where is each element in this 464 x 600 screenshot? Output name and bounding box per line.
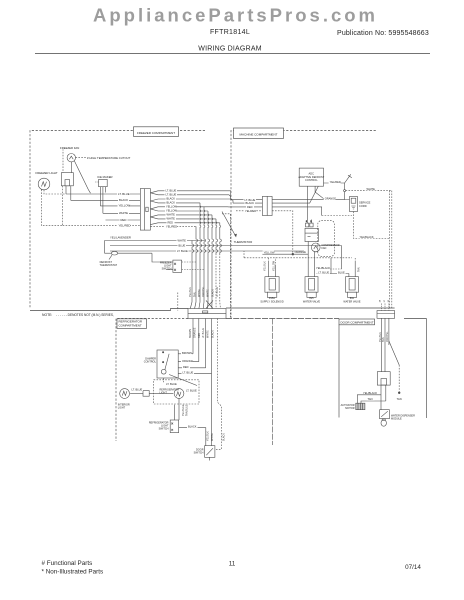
wire label red (left): [120, 218, 128, 222]
wire orange damper to J2: [178, 361, 199, 363]
svg-text:YEL/BLACK: YEL/BLACK: [316, 266, 330, 270]
compressor motor M2: [311, 243, 320, 252]
svg-text:WHITE: WHITE: [207, 289, 210, 297]
svg-text:LIGHT: LIGHT: [118, 406, 126, 409]
solenoid valve L3: [315, 246, 359, 298]
svg-text:LT. BLUE: LT. BLUE: [186, 388, 197, 392]
wire lamp drops to switch: [174, 405, 176, 420]
wire label white (left): [118, 211, 129, 215]
svg-text:ORANGE: ORANGE: [182, 359, 194, 363]
svg-text:MACHINE COMPARTMENT: MACHINE COMPARTMENT: [240, 132, 278, 136]
svg-text:YEL/LAVENDER: YEL/LAVENDER: [110, 235, 131, 239]
svg-text:ORANGE: ORANGE: [325, 197, 337, 201]
dashed riser left of J2: [177, 293, 179, 311]
wire P2 black diagonal to ADC: [272, 186, 318, 203]
svg-text:BROWN: BROWN: [189, 329, 192, 338]
thermistor arrow: [222, 212, 236, 237]
wire orange node: [262, 253, 308, 255]
svg-text:WATER VALVE: WATER VALVE: [303, 300, 320, 303]
wire white y240.5: [105, 240, 206, 242]
svg-text:LT. BLUE: LT. BLUE: [118, 192, 130, 196]
svg-text:CONTROL: CONTROL: [305, 178, 318, 182]
rotated labels door switch wires: [206, 431, 225, 441]
svg-text:TAN: TAN: [194, 292, 197, 297]
wire label lt. blue (L3 dashed): [317, 271, 330, 275]
svg-text:ORN/YEL: ORN/YEL: [386, 331, 389, 342]
svg-text:WHITE: WHITE: [119, 211, 128, 215]
svg-text:LT. BLUE: LT. BLUE: [166, 382, 177, 386]
wire yel/red dashed fanout: [151, 225, 197, 227]
wire labels entering machine connector: [244, 198, 257, 213]
svg-text:CORD: CORD: [359, 204, 367, 208]
wire label yel/red (adc right): [329, 180, 341, 184]
wire label yel/black (motor): [362, 391, 377, 395]
svg-text:CONTROL: CONTROL: [144, 360, 157, 363]
svg-text:LT. BLUE: LT. BLUE: [318, 271, 329, 275]
svg-text:LT. BLUE: LT. BLUE: [245, 198, 256, 202]
wire red pair fanout: [151, 223, 220, 225]
lamp terminal block: [143, 391, 149, 397]
svg-text:MOTOR: MOTOR: [345, 407, 354, 410]
svg-text:YEL/BLACK: YEL/BLACK: [363, 391, 377, 395]
wire brown damper to J2: [178, 353, 193, 355]
wire label lt. blue (lamp): [131, 388, 144, 392]
wire tan branch: [389, 341, 399, 365]
wire white pair fanout: [151, 215, 213, 217]
svg-text:COMPARTMENT: COMPARTMENT: [119, 323, 142, 327]
svg-text:BLUE: BLUE: [338, 271, 345, 275]
svg-text:ORANGE: ORANGE: [194, 327, 197, 338]
dispenser control box U4: [377, 372, 390, 385]
freezer compartment boundary: [30, 127, 205, 311]
svg-text:LT. BLUE: LT. BLUE: [166, 188, 177, 192]
svg-text:YEL/RED: YEL/RED: [119, 223, 131, 227]
door feed dashed pair: [388, 191, 390, 308]
svg-text:ORANGE: ORANGE: [295, 250, 307, 254]
wire yellow y205.9: [100, 205, 140, 207]
door connector P3: [377, 304, 395, 319]
vertical drop wire v2: [195, 226, 198, 308]
vertical drop wire v8: [220, 223, 222, 254]
run capacitor / relay box U2: [305, 220, 318, 242]
rotated wire labels above J2: [189, 286, 219, 297]
svg-text:SUPPLY SOLENOID: SUPPLY SOLENOID: [260, 300, 283, 303]
wire label yel/black (service): [359, 235, 374, 239]
svg-text:YEL/RED: YEL/RED: [245, 209, 256, 213]
svg-text:BLACK: BLACK: [212, 330, 215, 338]
wire label blue y245.5: [178, 244, 187, 248]
wire label orange (cold control): [324, 197, 337, 201]
svg-text:RED: RED: [247, 205, 253, 209]
svg-text:TAN: TAN: [397, 397, 402, 401]
svg-text:YEL/BLK: YEL/BLK: [263, 261, 266, 271]
svg-text:YELLOW: YELLOW: [119, 204, 131, 208]
svg-text:WHITE: WHITE: [167, 217, 176, 221]
refrigerator lamp LT3: [174, 389, 184, 399]
svg-text:SWITCH: SWITCH: [159, 427, 169, 430]
svg-text:* Non-Illustrated Parts: * Non-Illustrated Parts: [42, 569, 104, 576]
svg-text:BROWN: BROWN: [182, 351, 192, 355]
wire label orange: [181, 359, 194, 363]
svg-text:YEL/BLACK: YEL/BLACK: [360, 235, 374, 239]
svg-text:WHITE: WHITE: [211, 433, 214, 441]
svg-text:LT. BLUE: LT. BLUE: [132, 388, 143, 392]
svg-text:YEL/RED: YEL/RED: [166, 225, 177, 229]
svg-text:Publication No: 5995548663: Publication No: 5995548663: [337, 30, 429, 37]
freezer fan motor M1: [63, 149, 76, 173]
wires P3 down: [381, 318, 383, 371]
wire label blue (L3): [337, 271, 346, 275]
svg-text:YELLOW: YELLOW: [264, 250, 275, 254]
svg-text:BLACK: BLACK: [246, 201, 255, 205]
wire label brown: [181, 351, 192, 355]
svg-text:YEL/RED: YEL/RED: [330, 180, 341, 184]
svg-text:NOTE:: NOTE:: [42, 313, 52, 317]
svg-text:BLUE: BLUE: [179, 244, 186, 248]
wire yel/black to motor: [357, 395, 381, 403]
svg-text:RED: RED: [198, 333, 201, 338]
svg-text:RED: RED: [168, 220, 174, 224]
activator motor M3: [356, 403, 365, 410]
door switch S4: [205, 446, 215, 461]
vertical drop wire v4: [203, 207, 205, 309]
svg-text:LT. BLUE: LT. BLUE: [216, 287, 219, 297]
dashed riser right of J2: [229, 214, 231, 319]
wire yel/red y225.6 (dashed): [63, 225, 141, 227]
refrigerator light switch S3: [170, 420, 179, 433]
wire label red: [182, 365, 190, 369]
wire tan to motor: [361, 401, 386, 403]
svg-text:SWITCH: SWITCH: [162, 267, 172, 270]
wire yellow pair fanout: [151, 207, 205, 209]
defrost heater HTR1: [61, 173, 73, 201]
label freezer fan: [59, 146, 82, 150]
svg-text:YELLOW: YELLOW: [166, 209, 177, 213]
defrost thermostat loop: [105, 241, 173, 270]
svg-text:SWITCH: SWITCH: [194, 452, 204, 455]
svg-text:TAN: TAN: [358, 267, 361, 272]
wire freezer fan to high-temp cutout (dashed): [76, 156, 87, 158]
svg-text:WHITE: WHITE: [207, 330, 210, 338]
svg-text:LT. BLUE: LT. BLUE: [183, 371, 194, 375]
adaptive defrost control U1: [299, 168, 323, 186]
svg-text:# Functional Parts: # Functional Parts: [42, 560, 93, 567]
svg-text:ICE MAKER: ICE MAKER: [97, 175, 112, 179]
wire freezer light to yel-red net (dashed): [41, 190, 62, 226]
svg-text:11: 11: [229, 561, 236, 568]
vertical drop wire v1: [190, 241, 193, 309]
cold control switch S2: [344, 174, 352, 199]
dispenser bulb: [381, 419, 386, 426]
svg-text:TAN: TAN: [368, 397, 373, 401]
wire P2 yel/red dashed drop: [272, 211, 293, 254]
svg-text:YELLOW: YELLOW: [272, 260, 275, 271]
svg-text:07/14: 07/14: [405, 564, 421, 571]
svg-text:DOOR COMPARTMENT: DOOR COMPARTMENT: [341, 320, 374, 324]
svg-text:BLACK: BLACK: [212, 289, 215, 297]
wire label black (left): [118, 198, 129, 202]
wire white dashed to door feed: [346, 190, 392, 192]
ice maker IM1: [95, 179, 107, 213]
vertical drop wire v3: [199, 203, 202, 309]
svg-text:WIRING DIAGRAM: WIRING DIAGRAM: [198, 46, 261, 53]
wire label lt. blue (lamp feed): [165, 382, 178, 386]
svg-text:BLACK: BLACK: [167, 197, 176, 201]
svg-text:LIGHT: LIGHT: [160, 392, 168, 395]
fanout wire labels right of P1: [165, 188, 178, 228]
wire label tan (motor): [367, 397, 375, 401]
svg-text:BLACK: BLACK: [119, 198, 128, 202]
refrigerator compartment boundary: [116, 319, 188, 442]
compressor housing outline: [318, 221, 335, 257]
wire lt.blue y251: [110, 250, 304, 252]
svg-text:BLACK: BLACK: [222, 433, 225, 441]
header rule line: [35, 53, 430, 55]
svg-text:ORN/YEL: ORN/YEL: [202, 286, 205, 297]
wire label white (door feed): [366, 187, 377, 191]
solenoid valve L2: [305, 241, 318, 297]
svg-text:TAN/BLUE: TAN/BLUE: [186, 404, 189, 416]
water dispenser switch S5: [380, 410, 390, 419]
wire blue y245.5: [110, 245, 342, 247]
wire label lt. blue (lamp right): [185, 388, 198, 392]
connector P2 machine harness: [262, 196, 272, 215]
lamp module dashed enclosure: [154, 380, 199, 404]
wire terminal to lamp module: [149, 392, 173, 394]
wire black pair fanout: [151, 199, 234, 203]
svg-text:WATER VALVE: WATER VALVE: [343, 300, 360, 303]
wire label yel/red (left): [118, 223, 131, 227]
wire lt.blue damper: [178, 372, 211, 374]
solenoid valve L1: [265, 258, 279, 298]
svg-text:YELLOW: YELLOW: [166, 204, 177, 208]
wire label sen/lavender: [109, 235, 131, 239]
wire lamp to terminal: [130, 392, 143, 394]
dashed distribution rail: [244, 257, 352, 259]
wire label black (switch): [187, 425, 198, 429]
wire freezer light to lt-blue net (dashed): [44, 190, 66, 194]
svg-text:- - - - - - DENOTES NOT (M.N.): - - - - - - DENOTES NOT (M.N.) SERIES,: [56, 313, 114, 317]
wire label white y240.5: [177, 239, 188, 243]
freezer light switch S1: [173, 260, 204, 272]
svg-text:FREEZER COMPARTMENT: FREEZER COMPARTMENT: [137, 131, 175, 135]
freezer light LT1: [38, 178, 50, 190]
wire red y220: [106, 219, 141, 221]
svg-text:LT. BLUE: LT. BLUE: [202, 328, 205, 338]
svg-text:WHITE: WHITE: [178, 239, 187, 243]
damper control box U3: [157, 350, 197, 386]
wire lt.blue y194: [66, 193, 140, 195]
svg-text:THERMOSTAT: THERMOSTAT: [100, 263, 118, 267]
wire black y200.4: [71, 199, 141, 201]
rotated wire labels below J2: [189, 327, 214, 338]
wire ADC right to cold control: [324, 182, 345, 184]
wire freezer fan diagonal drop: [74, 161, 90, 193]
crossing wires above main connector: [206, 301, 213, 309]
wire ADC to defrost switch: [315, 186, 324, 199]
wire white y213.3: [103, 212, 140, 214]
svg-text:WHITE: WHITE: [367, 187, 376, 191]
wire lt.blue pair fanout: [151, 191, 263, 200]
wire ADC to relay left: [306, 186, 308, 219]
vertical drop wire v6: [212, 215, 214, 309]
svg-text:BLACK: BLACK: [167, 201, 176, 205]
svg-text:THERMISTOR: THERMISTOR: [234, 240, 252, 244]
svg-text:LT. BLUE: LT. BLUE: [177, 249, 188, 253]
wire black riser to door area: [272, 319, 274, 446]
svg-text:BLACK: BLACK: [188, 425, 197, 429]
wire yel/black dashed from service cord: [354, 212, 390, 239]
wires below U4: [380, 385, 382, 410]
svg-text:YEL/BLK: YEL/BLK: [206, 431, 209, 441]
label freezer light: [35, 171, 60, 175]
machine compartment boundary: [226, 128, 427, 319]
svg-text:FAN: FAN: [322, 247, 327, 250]
svg-text:WHITE: WHITE: [167, 213, 176, 217]
svg-text:# HIGH TEMPERATURE CUTOUT: # HIGH TEMPERATURE CUTOUT: [87, 156, 131, 160]
wire label yellow (machine): [263, 250, 275, 254]
wire label lt. blue: [182, 371, 195, 375]
wire label lt. blue (left): [117, 192, 130, 196]
wire red damper to J2: [178, 367, 206, 369]
svg-text:LT. BLUE: LT. BLUE: [166, 192, 177, 196]
wire P2 lt.blue to cold control: [272, 199, 345, 201]
svg-text:FREEZER LIGHT: FREEZER LIGHT: [36, 171, 58, 175]
door compartment boundary: [339, 319, 427, 419]
wire lamp feed lt.blue: [163, 378, 165, 382]
wires J2 bottom: [192, 319, 194, 354]
svg-text:YEL/BLK: YEL/BLK: [189, 287, 192, 297]
svg-text:AppliancePartsPros.com: AppliancePartsPros.com: [93, 4, 378, 25]
wire label yellow (left): [118, 204, 131, 208]
connector P1 freezer harness: [140, 189, 150, 231]
svg-text:FREEZER FAN: FREEZER FAN: [60, 146, 79, 150]
svg-text:WHITE: WHITE: [198, 289, 201, 297]
wire black switch to door switch: [179, 428, 206, 446]
wire P2 red: [272, 207, 322, 216]
interior lamp LT2: [120, 389, 130, 399]
wire label yel/black (valves): [315, 266, 330, 270]
vertical drop wire v7: [216, 219, 218, 254]
pin labels above P3: [380, 299, 391, 302]
svg-text:RED: RED: [183, 365, 189, 369]
main interconnect J2: [188, 309, 226, 319]
svg-text:FFTR1814L: FFTR1814L: [210, 29, 250, 36]
vertical drop wire v5: [208, 211, 210, 309]
svg-text:RED: RED: [121, 218, 127, 222]
wire heater drain to yel-red net (dashed): [62, 186, 64, 226]
rotated labels P3 wires: [379, 331, 389, 342]
wire label lt.blue y251: [176, 249, 189, 253]
service cord W1: [350, 197, 358, 212]
svg-text:TAN: TAN: [382, 337, 385, 342]
svg-text:MODULE: MODULE: [391, 418, 402, 421]
